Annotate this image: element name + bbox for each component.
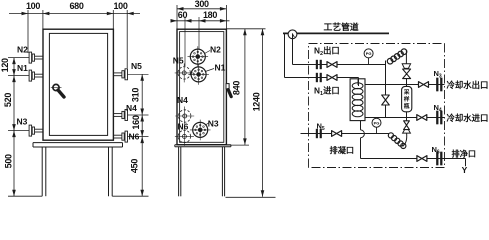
nozzle N6 side hidden circle <box>175 127 194 146</box>
sampling valve <box>406 118 408 121</box>
process pipe 工艺管道 <box>283 32 389 34</box>
left dimension chain 120/520/500 <box>13 58 15 197</box>
vent funnel <box>402 64 410 69</box>
condenser drain wire with hop <box>360 121 362 130</box>
dimension 300 top <box>177 8 226 10</box>
svg-text:160: 160 <box>131 115 141 129</box>
valve N5 <box>332 131 342 137</box>
nozzle N3 front <box>29 125 43 136</box>
wire tap from process line to N2 outlet pipe <box>292 33 294 64</box>
support frame front <box>33 143 123 147</box>
svg-text:450: 450 <box>130 159 140 173</box>
nozzle N3 side circle <box>190 120 211 141</box>
tank side outer shell <box>177 29 226 145</box>
svg-text:N4: N4 <box>177 95 188 105</box>
sampling pigtail coil <box>388 133 406 149</box>
ground extension lines front <box>8 195 42 197</box>
svg-text:N1: N1 <box>215 62 226 72</box>
pressure gauge PG2 <box>372 118 381 127</box>
svg-text:N4: N4 <box>126 103 137 113</box>
svg-text:瓶: 瓶 <box>404 102 410 110</box>
handle front <box>51 84 64 97</box>
svg-text:840: 840 <box>232 81 242 95</box>
svg-text:PG: PG <box>374 120 380 125</box>
nozzle N4 side hidden circle <box>175 107 194 126</box>
nozzle N5 side hidden circle <box>175 63 194 82</box>
svg-text:N6: N6 <box>129 132 140 142</box>
svg-text:500: 500 <box>4 154 14 168</box>
svg-text:N6: N6 <box>178 121 189 131</box>
bottom drain line to N6 <box>361 158 445 160</box>
valve N6 <box>417 156 427 162</box>
svg-text:采: 采 <box>403 88 410 96</box>
flange cooling outlet <box>436 78 442 91</box>
sampling bottle 采样瓶 <box>406 85 408 87</box>
nozzle N4 front <box>113 110 127 121</box>
flange N1 inlet <box>316 73 322 82</box>
tank front inner lid <box>49 33 107 135</box>
valve N2 outlet <box>327 62 337 68</box>
flange N5 <box>316 129 322 138</box>
vent pigtail coil <box>386 49 407 65</box>
svg-text:排凝口: 排凝口 <box>330 145 355 155</box>
vent valve <box>403 69 411 79</box>
svg-text:100: 100 <box>26 1 40 11</box>
nozzle N5 front <box>113 69 127 80</box>
svg-text:N5: N5 <box>131 61 142 71</box>
svg-text:100: 100 <box>113 1 127 11</box>
tank front outer shell <box>43 29 113 140</box>
svg-text:680: 680 <box>69 1 83 11</box>
svg-text:N3: N3 <box>17 117 28 127</box>
condenser shell <box>350 79 365 121</box>
wire from N2 pipe down <box>385 65 387 85</box>
dimension 100/680/100 top <box>9 10 140 68</box>
sampling skirt <box>403 130 411 134</box>
svg-text:Y: Y <box>462 165 468 175</box>
svg-text:N3: N3 <box>208 118 219 128</box>
svg-text:60: 60 <box>178 10 188 20</box>
svg-text:冷却水进口: 冷却水进口 <box>447 113 489 123</box>
condenser coil <box>352 79 363 117</box>
svg-text:N5: N5 <box>173 55 184 65</box>
svg-text:工艺管道: 工艺管道 <box>324 21 359 32</box>
tank side inner lid <box>180 32 224 143</box>
pressure gauge PG1 <box>368 58 370 65</box>
svg-text:排净口: 排净口 <box>452 149 477 159</box>
svg-text:冷却水出口: 冷却水出口 <box>447 80 489 90</box>
pipe N2 outlet <box>293 64 386 66</box>
drain header N5 <box>301 133 390 135</box>
svg-text:1240: 1240 <box>251 92 261 111</box>
flange N2 outlet <box>316 60 322 69</box>
svg-text:300: 300 <box>195 0 209 9</box>
instrument circle on process line <box>288 30 297 39</box>
nozzle N2 front <box>29 52 43 63</box>
dimension 1240 <box>262 29 264 197</box>
support frame side <box>175 145 231 147</box>
nozzle N1 front <box>29 70 43 81</box>
legs side <box>179 147 225 197</box>
svg-text:N1: N1 <box>17 63 28 73</box>
svg-text:520: 520 <box>3 93 13 107</box>
ground extension side <box>226 196 276 198</box>
valve cooling inlet <box>417 115 427 121</box>
svg-text:310: 310 <box>131 88 141 102</box>
flange cooling inlet <box>436 111 442 124</box>
valve on drop wire <box>385 85 387 96</box>
svg-text:180: 180 <box>203 10 217 20</box>
cooling water inlet header <box>365 117 445 119</box>
right dimension chain 310/160/450 <box>141 74 143 196</box>
skid boundary dash-dot box <box>309 44 445 168</box>
svg-text:N2: N2 <box>210 44 221 54</box>
svg-text:N2出口: N2出口 <box>314 46 340 58</box>
svg-text:N2: N2 <box>17 44 28 54</box>
wire tap from process line to N1 inlet pipe <box>284 33 286 77</box>
svg-text:120: 120 <box>0 58 10 72</box>
cooling water outlet header <box>365 84 445 86</box>
nozzle N2 side circle <box>188 46 209 67</box>
handle side <box>226 84 231 97</box>
dimension 60/180 <box>171 20 230 22</box>
nozzle N1 side circle <box>188 64 209 85</box>
legs front <box>42 147 112 196</box>
svg-text:样: 样 <box>404 95 410 103</box>
flange N6 <box>436 152 442 165</box>
nozzle N6 front <box>113 131 127 142</box>
svg-text:N1进口: N1进口 <box>314 86 340 98</box>
outlet elbow with Y <box>445 158 466 160</box>
pipe N1 inlet <box>285 77 359 79</box>
svg-text:PG: PG <box>366 51 372 56</box>
dimension 840 <box>226 28 265 30</box>
valve N1 inlet <box>327 75 337 81</box>
valve cooling outlet <box>419 82 429 88</box>
